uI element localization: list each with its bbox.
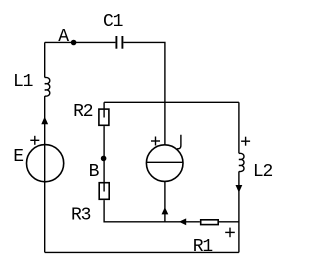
wire: left branch top (corner down to L1) <box>44 42 46 77</box>
svg-text:C1: C1 <box>103 12 123 32</box>
wire: R3 bottom down to lower-middle horizontal wire <box>104 200 200 222</box>
inductor L1 <box>45 77 50 96</box>
svg-text:R2: R2 <box>73 102 93 122</box>
capacitor C1 <box>116 36 122 49</box>
polarity + of E <box>30 136 39 145</box>
svg-text:L1: L1 <box>13 72 33 92</box>
node B (junction dot) <box>101 156 107 162</box>
polarity + at R1 right <box>225 228 235 238</box>
arrow: current direction on R1 wire (left) <box>179 218 186 225</box>
arrow: current direction of J (up) <box>162 207 169 214</box>
wire: right branch bottom corner up to L2 <box>238 171 240 252</box>
wire: top segment from left corner to C1 left plate <box>45 41 116 43</box>
svg-text:B: B <box>89 162 100 182</box>
wire: node B to R3 (lead into resistor center) <box>103 158 105 191</box>
wire: J bottom to lower-middle horizontal wire <box>164 182 166 222</box>
inductor L2 <box>239 153 244 171</box>
wire: left branch from L1 through source E down to bottom-left corner <box>44 96 46 252</box>
voltage source E (circle) <box>26 145 63 182</box>
wire: R2 bottom to node B <box>103 126 105 158</box>
arrow: current direction below L2 (down) <box>236 185 243 193</box>
svg-text:R1: R1 <box>193 237 213 257</box>
current source J (circle with bar) <box>146 145 183 182</box>
wire: right branch from top corner down to L2 <box>238 102 240 153</box>
wire: bottom segment <box>45 251 239 253</box>
resistor R2 <box>99 109 109 125</box>
wire: R1 right lead to right branch <box>219 221 239 223</box>
polarity + at L2 top <box>241 137 250 146</box>
node A (junction dot) <box>71 40 77 46</box>
svg-text:E: E <box>13 147 23 167</box>
arrow: EMF direction of E (up) <box>41 117 48 125</box>
polarity + at J top <box>151 137 160 146</box>
wire: C1 right plate to top-right corner, down to current source J <box>123 42 164 144</box>
wire: middle horizontal segment (R2 top to right branch) <box>104 101 239 103</box>
svg-text:L2: L2 <box>253 162 273 182</box>
resistor R1 <box>201 220 219 225</box>
svg-text:A: A <box>58 27 69 47</box>
svg-text:R3: R3 <box>71 206 91 226</box>
resistor R3 <box>99 183 109 200</box>
wire: R2 top lead (into resistor center) <box>103 102 105 117</box>
label J <box>177 135 181 149</box>
